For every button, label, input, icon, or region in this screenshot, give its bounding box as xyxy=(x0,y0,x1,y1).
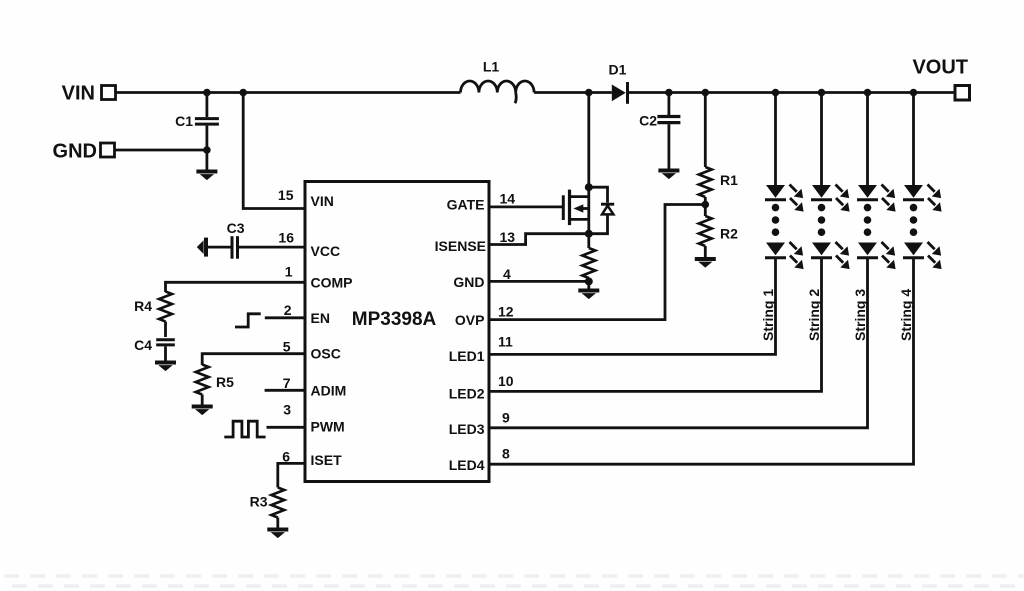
svg-text:OSC: OSC xyxy=(311,346,341,362)
node R1/R2 feedback junction xyxy=(702,201,710,209)
svg-text:R2: R2 xyxy=(720,226,738,242)
resistor Rsense xyxy=(582,234,595,290)
svg-text:D1: D1 xyxy=(609,62,627,78)
ground below C2 xyxy=(658,171,679,180)
wire OVP feedback xyxy=(489,205,705,320)
ground below R3 xyxy=(267,530,288,539)
node C1 top junction xyxy=(203,89,211,97)
wire top rail VIN to L1 xyxy=(116,91,461,94)
wire VIN branch to pin 15 xyxy=(243,93,306,209)
svg-text:2: 2 xyxy=(284,302,292,318)
wire GND pin 4 xyxy=(489,280,589,283)
svg-text:LED2: LED2 xyxy=(449,386,485,402)
bottom watermark band xyxy=(4,576,1024,586)
ground below C4 xyxy=(155,363,176,372)
wire ADIM stub xyxy=(265,389,306,392)
wire LED2 routing xyxy=(489,258,822,392)
wire PWM to pin 3 xyxy=(267,426,307,429)
svg-text:6: 6 xyxy=(282,448,290,464)
pin 12 OVP label xyxy=(455,304,514,329)
diode D1 xyxy=(609,62,628,104)
resistor R4 xyxy=(134,292,172,338)
wire ISENSE to Q1 source xyxy=(489,234,589,245)
pin 1 COMP label xyxy=(285,264,353,291)
svg-text:VIN: VIN xyxy=(62,83,95,105)
svg-text:4: 4 xyxy=(503,266,511,282)
svg-text:R5: R5 xyxy=(216,374,234,390)
ground below R2 xyxy=(695,259,716,268)
svg-text:ISENSE: ISENSE xyxy=(435,238,486,254)
wire L1 to D1 xyxy=(534,91,612,94)
svg-text:16: 16 xyxy=(278,230,294,246)
svg-text:14: 14 xyxy=(500,191,516,207)
svg-text:9: 9 xyxy=(502,409,510,425)
svg-text:ADIM: ADIM xyxy=(311,382,347,398)
node Q1 source junction xyxy=(585,230,593,238)
wire OSC to R5 xyxy=(202,354,306,365)
svg-text:ISET: ISET xyxy=(311,452,343,468)
op-amp U1 MP3398A IC body xyxy=(305,182,489,482)
capacitor C4 xyxy=(134,337,175,362)
svg-text:1: 1 xyxy=(285,264,293,280)
svg-text:GND: GND xyxy=(453,274,484,290)
svg-text:COMP: COMP xyxy=(311,274,353,290)
svg-text:String 3: String 3 xyxy=(852,289,868,341)
svg-text:LED3: LED3 xyxy=(449,421,485,437)
svg-text:VOUT: VOUT xyxy=(912,57,968,79)
ground below C1 xyxy=(196,172,217,181)
svg-text:13: 13 xyxy=(500,229,516,245)
terminal VOUT xyxy=(912,57,969,101)
pin 2 EN label xyxy=(284,302,330,326)
node string 1 top xyxy=(772,89,780,97)
svg-text:String 2: String 2 xyxy=(806,289,822,341)
svg-text:String 4: String 4 xyxy=(898,289,914,341)
wire COMP to R4 xyxy=(166,282,307,292)
node VIN branch junction xyxy=(239,89,247,97)
svg-text:C4: C4 xyxy=(134,337,152,353)
svg-text:C3: C3 xyxy=(227,220,245,236)
resistor R2 xyxy=(699,205,738,259)
node Rsense/GND junction xyxy=(585,277,593,285)
pin 15 VIN label xyxy=(278,187,334,209)
capacitor C3 xyxy=(208,220,307,259)
capacitor C2 xyxy=(639,93,680,170)
terminal GND xyxy=(53,141,115,163)
wire string 2 drop xyxy=(820,93,823,186)
resistor R5 xyxy=(196,365,234,407)
node C2 junction xyxy=(665,89,673,97)
svg-text:PWM: PWM xyxy=(311,419,345,435)
node SW junction xyxy=(585,89,593,97)
svg-text:5: 5 xyxy=(283,338,291,354)
wire GND to C1 xyxy=(115,149,207,152)
svg-text:8: 8 xyxy=(502,446,510,462)
LED string 4 diodes xyxy=(903,185,942,270)
svg-text:C2: C2 xyxy=(639,113,657,129)
svg-text:C1: C1 xyxy=(175,113,193,129)
wire GATE pin to Q1 xyxy=(489,205,563,208)
svg-text:R4: R4 xyxy=(134,298,152,314)
pin 5 OSC label xyxy=(283,338,341,361)
node C1/GND junction xyxy=(203,146,211,154)
wire string 3 drop xyxy=(866,93,869,186)
svg-text:LED4: LED4 xyxy=(449,457,485,473)
svg-text:10: 10 xyxy=(498,373,514,389)
node R1 top junction xyxy=(702,89,710,97)
wire LED1 routing xyxy=(489,258,776,355)
pin 9 LED3 label xyxy=(449,409,510,437)
pin 14 GATE label xyxy=(447,191,516,213)
PWM square wave symbol xyxy=(224,421,265,437)
LED string 3 diodes xyxy=(857,185,896,270)
ground below R5 xyxy=(192,407,213,416)
node string 2 top xyxy=(818,89,826,97)
svg-text:R1: R1 xyxy=(720,172,738,188)
node Q1 drain junction xyxy=(585,183,593,191)
capacitor C1 xyxy=(175,93,219,172)
pin 13 ISENSE label xyxy=(435,229,516,254)
body diode of Q1 xyxy=(589,187,614,234)
svg-text:11: 11 xyxy=(498,334,513,350)
ground below Rsense xyxy=(578,291,599,300)
wire LED3 routing xyxy=(489,258,868,428)
svg-text:MP3398A: MP3398A xyxy=(352,309,437,330)
wire string 1 drop xyxy=(774,93,777,186)
svg-text:LED1: LED1 xyxy=(449,348,485,364)
svg-text:7: 7 xyxy=(283,375,291,391)
resistor R1 xyxy=(699,93,738,205)
svg-text:R3: R3 xyxy=(250,494,268,510)
pin 6 ISET label xyxy=(282,448,342,468)
svg-text:EN: EN xyxy=(311,310,330,326)
inductor L1 xyxy=(461,59,535,104)
resistor R3 xyxy=(250,488,285,530)
wire ISET to R3 xyxy=(278,463,306,487)
wire EN to pin 2 xyxy=(265,316,306,319)
pin 3 PWM label xyxy=(283,401,345,434)
svg-text:12: 12 xyxy=(498,304,514,320)
svg-text:VCC: VCC xyxy=(311,243,341,259)
svg-text:String 1: String 1 xyxy=(760,289,776,341)
svg-text:OVP: OVP xyxy=(455,312,485,328)
pin 8 LED4 label xyxy=(449,446,510,473)
LED string 2 diodes xyxy=(811,185,850,270)
svg-text:GND: GND xyxy=(53,141,97,163)
pin 10 LED2 label xyxy=(449,373,514,402)
EN step symbol xyxy=(235,314,261,327)
svg-text:15: 15 xyxy=(278,187,294,203)
svg-text:GATE: GATE xyxy=(447,197,485,213)
pin 11 LED1 label xyxy=(449,334,513,364)
wire string 4 drop xyxy=(912,93,915,186)
node string 3 top xyxy=(864,89,872,97)
transistor Q1 (external NMOS) xyxy=(563,93,589,234)
wire D1 to VOUT xyxy=(629,91,955,94)
node string 4 top xyxy=(910,89,918,97)
ground left of C3 (sideways) xyxy=(197,238,206,257)
svg-text:3: 3 xyxy=(283,401,291,417)
pin 16 VCC label xyxy=(278,230,340,260)
pin 7 ADIM label xyxy=(283,375,347,398)
pin 4 GND label xyxy=(453,266,511,290)
svg-text:VIN: VIN xyxy=(311,193,334,209)
wire LED4 routing xyxy=(489,258,914,464)
terminal VIN xyxy=(62,83,116,105)
svg-text:L1: L1 xyxy=(483,59,500,75)
LED string 1 diodes xyxy=(765,185,804,270)
